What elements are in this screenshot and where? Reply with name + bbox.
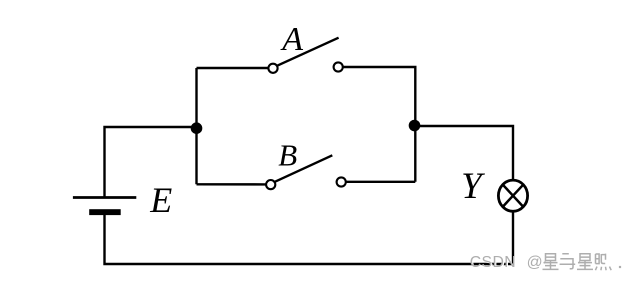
wire switch A left lead [197,67,269,69]
星 (2) [577,254,593,270]
wire right node to lamp top lead [414,126,513,180]
svg-text:Y: Y [461,166,485,207]
watermark CSDN @星与星熙. [470,254,624,272]
wire battery top to left node [105,127,197,198]
与 [560,254,576,269]
switch B [266,155,346,189]
node left junction [191,122,203,134]
svg-text:A: A [280,21,303,58]
switch A [268,38,342,73]
wire switch B left lead [197,183,266,185]
node right junction [409,120,421,132]
svg-text:E: E [149,180,172,220]
battery E plates [73,198,136,216]
wire left branch vertical [195,68,197,184]
svg-text:B: B [278,138,297,173]
period [619,266,621,268]
熙 [595,254,611,271]
wire switch A right lead and right branch vertical [343,67,416,182]
svg-text:CSDN: CSDN [470,254,516,271]
星 (1) [543,254,559,270]
wire switch B right lead [346,181,416,183]
svg-text:@: @ [527,254,543,271]
lamp Y [498,180,527,211]
wire lamp bottom lead, bottom return, battery bottom lead [105,211,514,264]
